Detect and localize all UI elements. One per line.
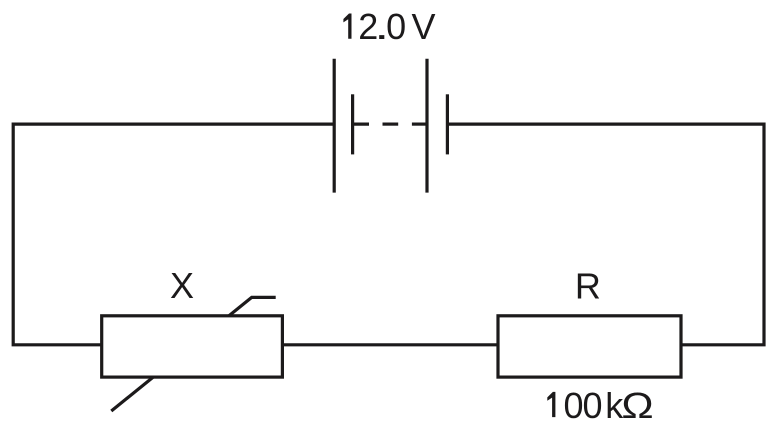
svg-text:X: X [170, 265, 194, 306]
svg-text:Ω: Ω [621, 386, 653, 426]
svg-text:0: 0 [564, 385, 584, 426]
svg-text:V: V [412, 6, 436, 47]
svg-text:0: 0 [386, 6, 406, 47]
svg-text:R: R [575, 265, 601, 306]
svg-text:0: 0 [582, 385, 602, 426]
